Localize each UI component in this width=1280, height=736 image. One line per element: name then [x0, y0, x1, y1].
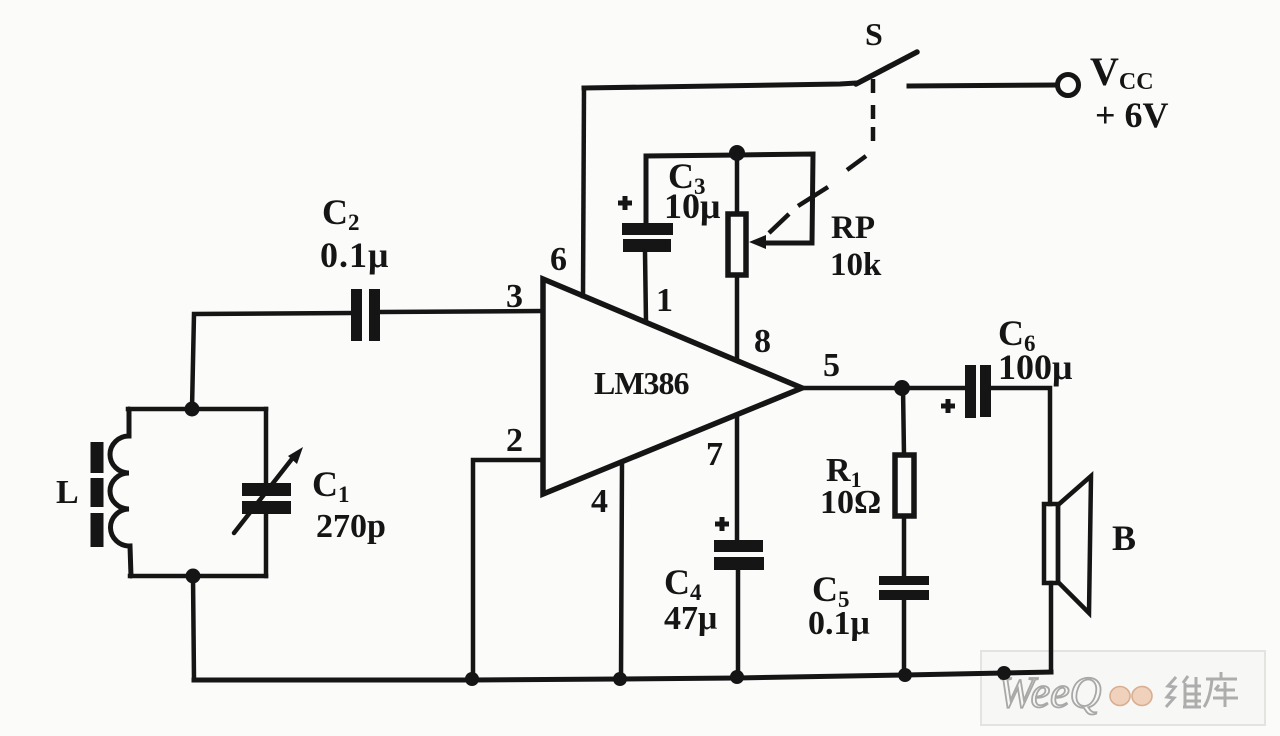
svg-text:L: L — [56, 474, 79, 511]
pin 5 label — [823, 347, 840, 384]
svg-text:0.1μ: 0.1μ — [808, 605, 870, 642]
svg-text:10k: 10k — [830, 247, 882, 283]
node: output junction — [894, 380, 910, 396]
svg-text:2: 2 — [506, 422, 523, 459]
pin 8 label — [754, 323, 771, 360]
capacitor C3 — [618, 196, 673, 252]
dashed link: diagonal to wiper — [769, 156, 866, 233]
wire: pin 2 to ground — [473, 460, 543, 679]
svg-text:100μ: 100μ — [998, 347, 1072, 387]
pin 7 label — [706, 436, 723, 473]
pin 1 label — [656, 282, 673, 319]
svg-text:8: 8 — [754, 323, 771, 360]
label C1 — [312, 464, 350, 507]
wire: C2 to pin 3 — [380, 311, 542, 312]
svg-text:10μ: 10μ — [664, 186, 720, 226]
pin 3 label — [506, 278, 523, 315]
capacitor C5 — [879, 576, 929, 675]
resistor R1 — [895, 388, 914, 576]
label C4 — [664, 562, 702, 605]
node: C4 ground junction — [730, 670, 744, 684]
node: tank top junction — [185, 402, 200, 417]
potentiometer RP — [728, 155, 766, 360]
label LM386 — [594, 365, 690, 401]
label B — [1112, 518, 1136, 558]
label L — [56, 474, 79, 511]
label C3 — [668, 156, 706, 199]
label 0.1u C5 — [808, 605, 870, 642]
node: tank bottom junction — [186, 569, 201, 584]
wire: switch to Vcc terminal — [909, 85, 1057, 86]
terminal Vcc — [1058, 75, 1079, 96]
svg-text:10Ω: 10Ω — [820, 484, 881, 521]
node: C5 ground junction — [898, 668, 912, 682]
pin 6 label — [550, 241, 567, 278]
svg-text:47μ: 47μ — [664, 600, 717, 637]
capacitor C6 — [941, 365, 991, 418]
label 0.1u C2 — [320, 235, 389, 275]
wire: pin 7 lead — [735, 418, 740, 540]
svg-text:4: 4 — [591, 483, 608, 520]
switch S blade — [856, 52, 917, 84]
node: rail junction — [997, 666, 1011, 680]
svg-text:+ 6V: + 6V — [1095, 95, 1169, 135]
watermark 维库 glyphs — [1166, 672, 1238, 707]
watermark WeeQoo text — [998, 668, 1152, 717]
node: C3/RP junction — [729, 145, 745, 161]
svg-text:WeeQ: WeeQ — [998, 668, 1101, 717]
svg-text:5: 5 — [823, 347, 840, 384]
inductor L — [110, 409, 131, 576]
wire: tank bottom to ground rail — [193, 576, 194, 680]
svg-text:LM386: LM386 — [594, 365, 690, 401]
label S — [865, 16, 883, 52]
label R1 — [826, 452, 862, 492]
svg-text:RP: RP — [831, 210, 875, 246]
label RP — [831, 210, 875, 246]
label 270p — [316, 508, 386, 545]
svg-text:S: S — [865, 16, 883, 52]
wire: C6 to speaker — [991, 388, 1050, 504]
svg-text:0.1μ: 0.1μ — [320, 235, 389, 275]
wire: top supply rail — [584, 83, 856, 88]
node: pin4 ground junction — [613, 672, 627, 686]
svg-text:1: 1 — [656, 282, 673, 319]
label 10k — [830, 247, 882, 283]
label 10u C3 — [664, 186, 720, 226]
label +6V — [1095, 95, 1169, 135]
pin 4 label — [591, 483, 608, 520]
wire: output pin 5 — [802, 386, 963, 391]
inductor L ferrite core — [91, 442, 104, 547]
wire: pin 4 to ground — [621, 462, 622, 679]
label C5 — [812, 569, 850, 612]
wire: pin 1 lead — [645, 252, 646, 322]
capacitor C4 — [714, 517, 764, 678]
watermark box — [981, 651, 1265, 725]
wire: tank bottom edge — [130, 574, 266, 579]
wire: C3 top lead — [646, 155, 737, 223]
node: pin2 ground junction — [465, 672, 479, 686]
label 100u C6 — [998, 347, 1072, 387]
capacitor C2 — [351, 289, 380, 341]
svg-text:6: 6 — [550, 241, 567, 278]
speaker B — [1044, 476, 1091, 672]
wire: tank top edge — [128, 407, 266, 412]
pin 2 label — [506, 422, 523, 459]
label C6 — [998, 313, 1036, 356]
pin 6 wire — [583, 88, 584, 296]
wire: input node down from C2 to tank top — [192, 313, 351, 409]
svg-text:B: B — [1112, 518, 1136, 558]
wire: ground rail — [194, 672, 1051, 680]
wire: RP right loop to wiper — [737, 154, 813, 243]
dashed link: switch to RP (vertical) — [871, 79, 876, 141]
label Vcc — [1090, 49, 1154, 95]
label C2 — [322, 192, 360, 235]
label 47u C4 — [664, 600, 717, 637]
capacitor C1 (variable) — [234, 409, 303, 576]
svg-text:270p: 270p — [316, 508, 386, 545]
op-amp U1 LM386 — [543, 279, 802, 494]
svg-text:3: 3 — [506, 278, 523, 315]
svg-text:7: 7 — [706, 436, 723, 473]
label 10ohm — [820, 484, 881, 521]
